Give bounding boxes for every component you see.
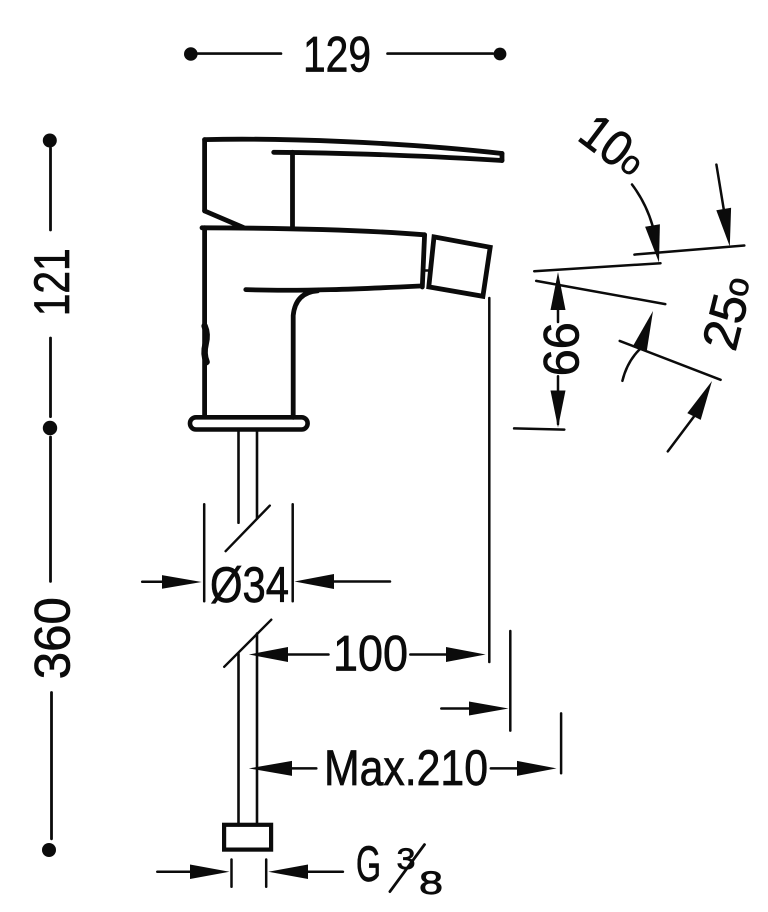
- faucet lever lower-left diagonal: [205, 211, 244, 228]
- angle 10 label: [569, 103, 657, 189]
- threaded rod upper right line: [256, 430, 259, 519]
- angle reference line A: [634, 246, 744, 255]
- dimension G3/8 right tick: [265, 860, 268, 887]
- svg-text:360: 360: [25, 597, 81, 679]
- dimension 66 lower shaft: [557, 376, 560, 424]
- dimension 360 bottom dot: [42, 843, 56, 857]
- dimension Max.210 right arrowhead: [517, 761, 557, 776]
- auxiliary arrowhead: [469, 702, 509, 716]
- spout outlet projection line: [488, 298, 491, 662]
- angle 25 lower arrowhead: [687, 381, 712, 420]
- dimension O34 left arrow shaft: [142, 581, 165, 584]
- fraction slash: [390, 845, 425, 892]
- dimension O34 right arrowhead: [295, 574, 335, 589]
- angle 10 right arrow shaft: [716, 165, 723, 209]
- dimension 129 left dot: [184, 47, 198, 61]
- dimension 129 right line: [388, 52, 494, 55]
- dimension 121 lower line: [49, 338, 52, 417]
- svg-text:Ø34: Ø34: [210, 557, 289, 613]
- dimension 360 label: [25, 597, 81, 679]
- threaded rod lower right line: [256, 634, 259, 826]
- angle 10 leader arc: [632, 185, 653, 226]
- faucet column left edge: [202, 228, 207, 417]
- faucet lever bottom edge: [274, 152, 502, 160]
- svg-text:66: 66: [534, 322, 590, 376]
- dimension 100 right shaft: [410, 653, 446, 656]
- dimension O34 left arrowhead: [162, 575, 202, 589]
- faucet fillet and column right edge: [293, 291, 317, 417]
- dimension 66 upper shaft: [557, 309, 560, 322]
- dimension O34 right arrow shaft: [334, 580, 390, 583]
- angle 10 right arrowhead: [716, 208, 731, 247]
- dimension 129 left line: [198, 52, 282, 55]
- dimension G3/8 right shaft: [308, 871, 343, 874]
- dimension 121 upper line: [49, 148, 52, 230]
- svg-text:121: 121: [24, 248, 80, 316]
- dimension 121/360 shared dot: [43, 421, 57, 435]
- spout joint nub: [423, 269, 431, 272]
- dimension O34 right extension line: [291, 504, 294, 601]
- dimension G3/8 left tick: [230, 860, 233, 887]
- dimension Max.210 right shaft: [491, 767, 517, 770]
- threaded rod upper left line: [237, 430, 240, 523]
- dimension Max.210 left shaft: [291, 767, 316, 770]
- faucet cartridge stem: [290, 152, 295, 228]
- angle reference line B: [534, 263, 660, 271]
- threaded rod lower left line: [237, 654, 240, 825]
- dimension 121 top dot: [43, 134, 57, 148]
- faucet lever left edge: [202, 140, 207, 211]
- rod end nut: [224, 825, 271, 850]
- dimension G3/8 left arrowhead: [190, 865, 230, 880]
- faucet lever top edge: [205, 139, 502, 153]
- dimension 121 label: [24, 248, 80, 316]
- dimension 129 right dot: [494, 48, 507, 61]
- faucet column left edge ink blob: [205, 326, 207, 362]
- dimension 360 lower line: [50, 693, 53, 839]
- faucet lever tip cap: [500, 154, 505, 161]
- angle 25 leader arc: [622, 350, 639, 381]
- angle reference line C: [536, 281, 665, 304]
- svg-text:G: G: [356, 836, 381, 892]
- faucet spout underside: [246, 286, 421, 290]
- dimension 360 upper line: [49, 437, 52, 581]
- faucet body top edge: [202, 228, 425, 235]
- dimension 100 left shaft: [288, 653, 329, 656]
- dimension G3/8 left shaft: [157, 871, 192, 874]
- svg-text:8: 8: [419, 865, 443, 901]
- dimension 66 top arrowhead: [551, 272, 566, 310]
- svg-text:Max.210: Max.210: [324, 740, 488, 796]
- dimension 66 bottom tick: [514, 428, 564, 429]
- dimension Max.210 left arrowhead: [249, 761, 292, 776]
- auxiliary extension line: [509, 631, 512, 731]
- dimension O34 left extension line: [203, 504, 206, 601]
- angle 25 label: [691, 270, 763, 355]
- dimension G3/8 right arrowhead: [268, 865, 308, 880]
- dimension 100 right arrowhead: [446, 647, 486, 662]
- angle 10 leader arrowhead: [645, 224, 660, 262]
- dimension 100 left arrowhead: [249, 647, 288, 662]
- rod break slash upper: [226, 506, 270, 552]
- faucet aerator tip: [429, 237, 490, 296]
- svg-text:129: 129: [303, 27, 371, 83]
- angle reference line D: [620, 341, 721, 380]
- faucet base plate: [190, 417, 308, 429]
- dimension Max.210 right extension line: [560, 713, 563, 773]
- angle 25 lower arrow shaft: [668, 417, 694, 452]
- dimension 66 label: [534, 322, 590, 376]
- rod break slash lower: [224, 620, 271, 667]
- svg-text:100: 100: [333, 626, 408, 682]
- angle 25 leader arrowhead: [632, 311, 653, 352]
- dimension 66 bottom arrowhead: [551, 391, 566, 428]
- faucet body right end edge: [422, 235, 424, 287]
- auxiliary arrow shaft: [441, 707, 471, 710]
